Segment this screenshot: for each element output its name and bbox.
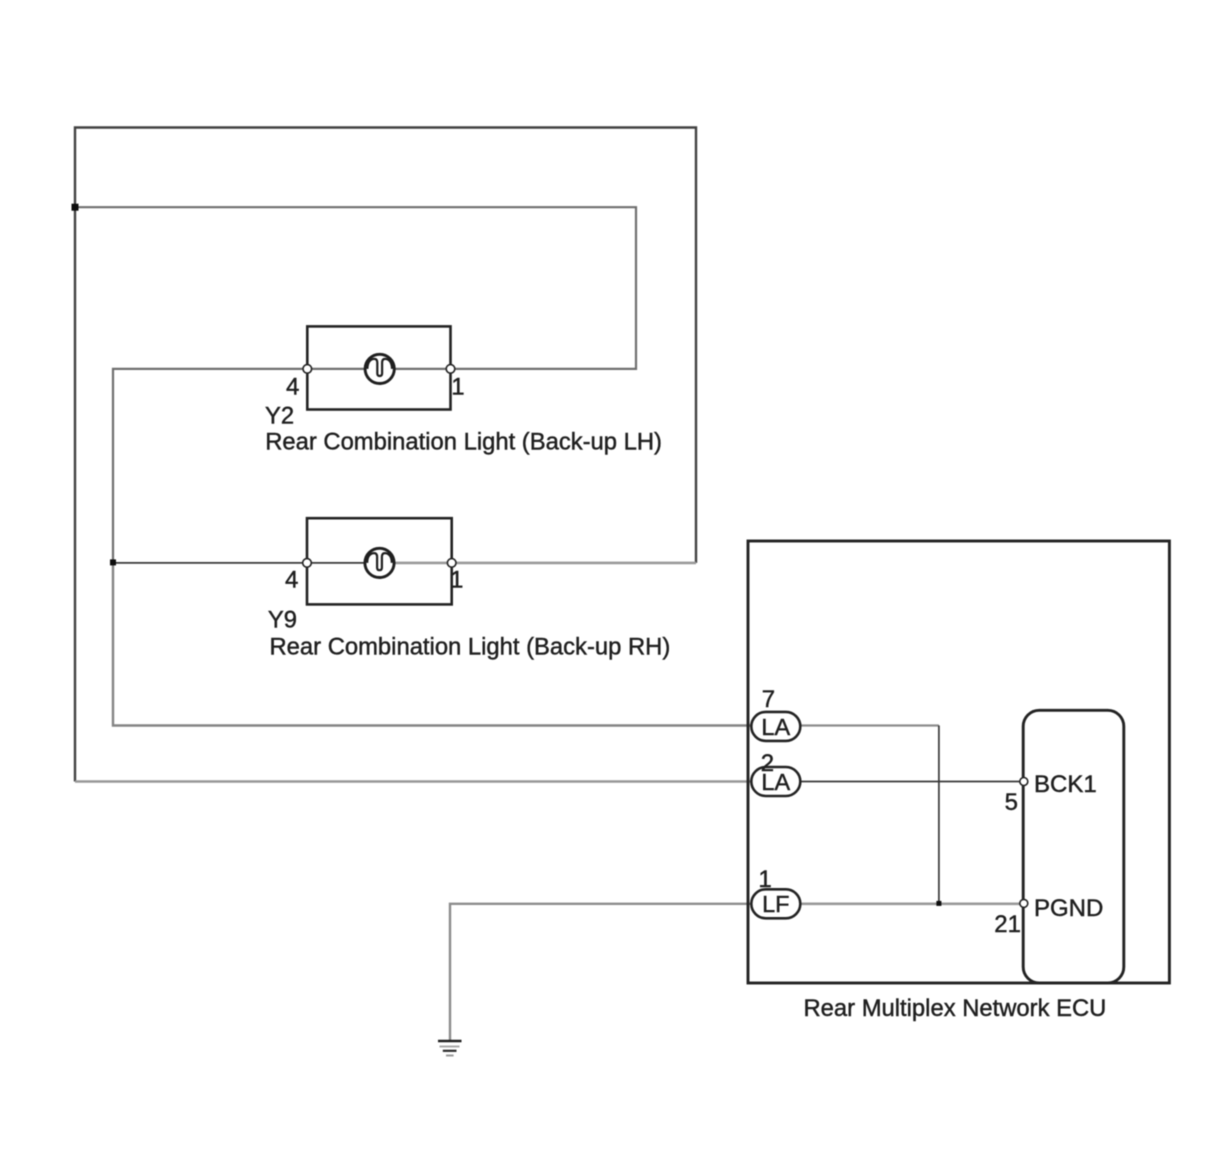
wire: loop bottom run from LA(2) oval to left edge: [75, 780, 752, 783]
wire: LA(7) to internal vertical: [800, 724, 939, 726]
wire: Y2 pin4 to vertical x=113: [113, 369, 307, 563]
wire: internal vertical to PGND net: [938, 726, 940, 904]
wire: Y2 pin1 branch (y=207): [75, 207, 636, 369]
ECU box: [748, 541, 1169, 983]
svg-text:LA: LA: [761, 714, 790, 740]
svg-text:5: 5: [1005, 789, 1018, 816]
wire: big loop left/top/right (BCK1 net to Y9 pin 1): [75, 128, 696, 782]
ground G1: [438, 1041, 462, 1056]
connector block: [1023, 710, 1124, 983]
svg-text:1: 1: [451, 374, 464, 401]
svg-text:Y2: Y2: [265, 403, 294, 430]
pin BCK1 circle: [1020, 778, 1028, 786]
svg-text:Rear Combination Light (Back-u: Rear Combination Light (Back-up LH): [265, 429, 662, 456]
svg-text:21: 21: [994, 911, 1021, 938]
lamp Y2 terminal 1: [446, 365, 455, 374]
wire: Y9 bulb to pin1 to loop: [380, 562, 696, 565]
wire: LF to PGND pin: [800, 902, 1021, 905]
pin PGND circle: [1020, 899, 1028, 907]
svg-text:PGND: PGND: [1034, 895, 1103, 922]
svg-text:LF: LF: [762, 891, 789, 917]
connector LF pin 1 oval: [751, 889, 800, 918]
lamp Y2 bulb: [365, 354, 394, 383]
svg-text:4: 4: [286, 374, 299, 401]
lamp Y2 box: [307, 326, 450, 409]
junction dot B (113,562): [110, 559, 116, 565]
svg-text:2: 2: [761, 750, 774, 777]
svg-text:7: 7: [762, 686, 775, 713]
svg-text:BCK1: BCK1: [1034, 771, 1097, 798]
lamp Y9 terminal 1: [447, 559, 456, 568]
lamp Y9 terminal 4: [303, 559, 312, 568]
svg-text:Rear Combination Light (Back-u: Rear Combination Light (Back-up RH): [270, 634, 671, 661]
junction dot C (939,903): [936, 901, 941, 906]
lamp Y9 box: [307, 518, 452, 604]
wire: LF net to ground: [450, 904, 752, 1041]
lamp Y2 terminal 4: [303, 365, 312, 374]
lamp Y9 bulb: [365, 548, 394, 577]
wire: x=113 down to LA(7) oval: [113, 563, 752, 726]
svg-text:Rear Multiplex Network ECU: Rear Multiplex Network ECU: [804, 995, 1107, 1022]
svg-text:1: 1: [758, 866, 771, 893]
wire: Y9 feed dark from junction to bulb: [113, 562, 380, 564]
svg-text:Y9: Y9: [268, 607, 297, 634]
junction dot A (75,207): [72, 204, 79, 211]
wire: Y2 internal through bulb: [307, 368, 450, 370]
connector LA pin 2 oval: [751, 767, 800, 796]
svg-text:1: 1: [450, 567, 463, 594]
connector LA pin 7 oval: [751, 712, 800, 741]
svg-text:4: 4: [285, 567, 298, 594]
wire: LA(2) to BCK1 pin: [800, 781, 1022, 783]
